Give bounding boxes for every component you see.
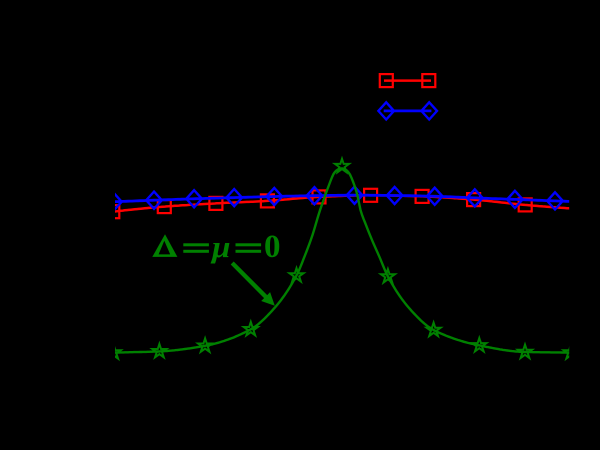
legend blue entry	[378, 102, 437, 119]
red curve (squares series)	[106, 189, 579, 218]
svg-text:μ: μ	[210, 229, 231, 264]
annotation arrow	[231, 262, 275, 306]
green curve (stars series)	[107, 159, 578, 359]
svg-text:0: 0	[264, 229, 281, 265]
legend red entry	[380, 74, 436, 87]
annotation text Delta = mu = 0	[152, 229, 280, 265]
blue curve (diamonds series)	[106, 187, 578, 211]
